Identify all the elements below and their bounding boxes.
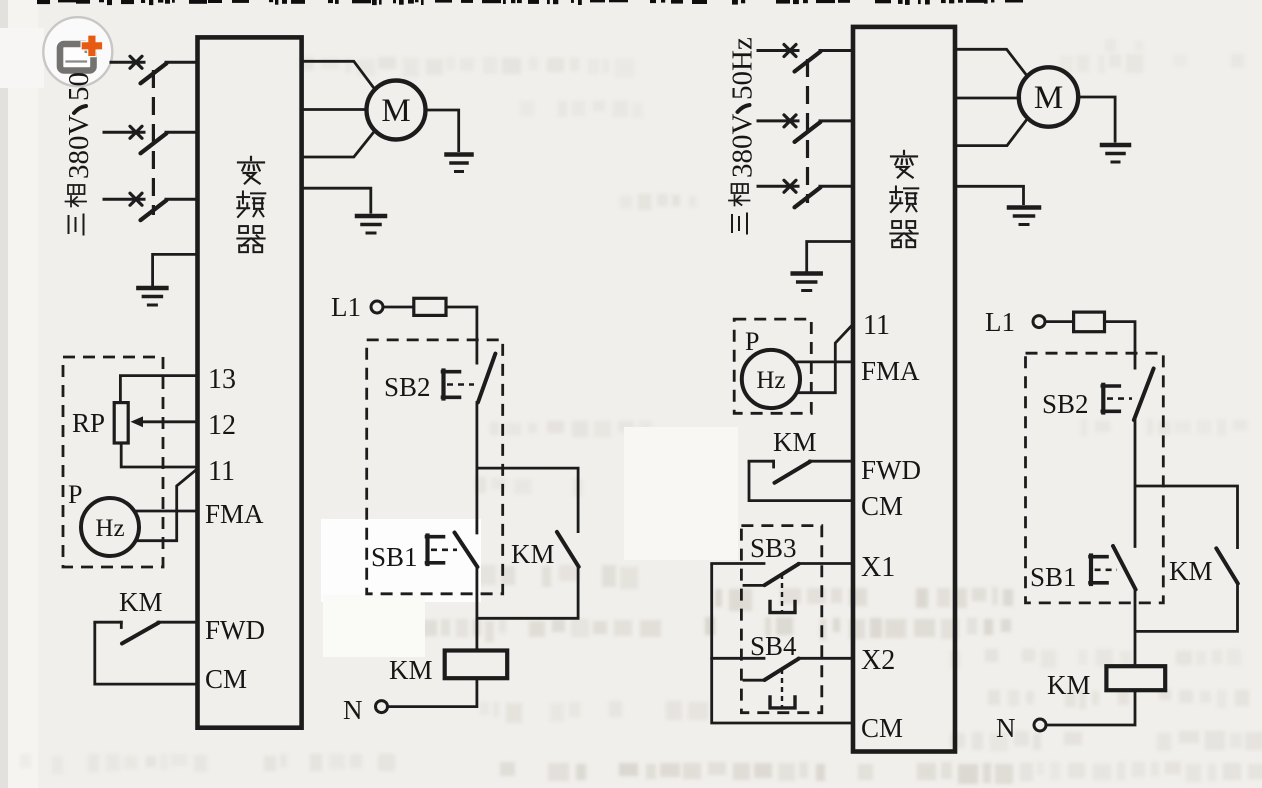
- svg-text:CM: CM: [205, 664, 247, 694]
- wire KM aux bottom (right control): [1135, 583, 1238, 631]
- wire KM aux bottom: [477, 567, 578, 619]
- terminal L1 circle: [371, 301, 383, 313]
- motor M (right): [1019, 67, 1078, 126]
- wire SB1 to coil: [475, 567, 478, 651]
- svg-text:380V: 380V: [63, 115, 95, 180]
- button SB2 actuator (right control): [1101, 385, 1105, 413]
- contact KM aux blade: [557, 532, 579, 567]
- wire fuse to SB2 (right control): [1105, 322, 1136, 370]
- contact KM to FWD (right): [749, 460, 774, 463]
- meter wire to FMA: [134, 510, 197, 513]
- three-phase supply label 三相380V、50Hz (right): [727, 37, 759, 233]
- switch QS phase 2 (left): [104, 131, 144, 134]
- svg-text:M: M: [1034, 80, 1063, 116]
- ground G4 below motor (right): [1102, 143, 1129, 148]
- button SB4 wire and blade (X2): [712, 657, 764, 660]
- svg-text:RP: RP: [72, 408, 105, 438]
- svg-text:SB2: SB2: [384, 372, 431, 402]
- ground G2 (left): [357, 214, 385, 219]
- button SB2 NC blade: [478, 354, 496, 403]
- svg-text:Hz: Hz: [95, 515, 124, 542]
- terminal L1 circle (right control): [1033, 316, 1045, 328]
- wire to motor bottom (right): [955, 118, 1028, 145]
- svg-text:KM: KM: [773, 427, 817, 457]
- inverter U2 label 变频器: [891, 151, 917, 178]
- svg-text:50Hz: 50Hz: [727, 37, 759, 100]
- ground G5 (right): [1009, 205, 1039, 210]
- frequency meter P/Hz (right): [742, 350, 800, 408]
- svg-text:11: 11: [208, 456, 235, 487]
- button SB1 NO blade: [455, 533, 478, 568]
- branch wire to KM contact (left control): [477, 468, 578, 533]
- wire SB2 to junction: [475, 403, 478, 534]
- svg-text:Hz: Hz: [756, 367, 785, 394]
- switch QS phase 1 (right): [758, 49, 798, 52]
- svg-text:CM: CM: [861, 713, 903, 743]
- button SB3 wire and blade (X1): [712, 562, 764, 565]
- svg-text:380V: 380V: [727, 114, 759, 179]
- svg-text:12: 12: [208, 410, 236, 441]
- svg-text:N: N: [996, 713, 1016, 743]
- terminal N circle (right control): [1034, 719, 1046, 731]
- wire L1 to fuse: [383, 306, 414, 309]
- inverter U2 (right 变频器): [853, 27, 955, 752]
- potentiometer RP body: [114, 403, 128, 443]
- wire KM-CM (left): [95, 622, 198, 684]
- button SB1 actuator: [425, 536, 429, 565]
- svg-text:L1: L1: [985, 307, 1015, 337]
- svg-text:X2: X2: [861, 645, 895, 676]
- watermark logo document icon: [60, 44, 94, 71]
- ground G1 below motor (left): [447, 152, 472, 157]
- dashed enclosure buttons (right control): [1026, 353, 1164, 603]
- svg-text:X1: X1: [861, 552, 895, 583]
- terminal 13 wire: [120, 376, 197, 403]
- terminal 12 wire with wiper arrow: [140, 420, 198, 423]
- wire to motor mid (left): [302, 108, 367, 111]
- svg-text:FMA: FMA: [205, 499, 264, 529]
- dashed enclosure SB3/SB4: [741, 526, 821, 713]
- wire to ground from inverter left (right): [807, 242, 853, 272]
- button SB2 actuator: [441, 371, 445, 399]
- button SB1 NO blade (right control): [1113, 546, 1136, 590]
- switch linkage dashed (right): [806, 59, 809, 203]
- button SB1 actuator (right control): [1089, 556, 1093, 585]
- svg-text:11: 11: [863, 310, 890, 341]
- fuse FU (left control): [414, 298, 446, 315]
- terminal N circle (left control): [376, 701, 388, 713]
- ground G6 (right): [793, 271, 821, 276]
- motor ground wire (right): [1078, 97, 1115, 143]
- svg-text:KM: KM: [1047, 670, 1091, 700]
- top cropped text row: [37, 0, 50, 4]
- fuse FU (right control): [1074, 312, 1105, 332]
- inverter U1 (left 变频器): [198, 37, 302, 727]
- watermark logo circle: [43, 17, 112, 86]
- coil KM (right control): [1106, 666, 1165, 690]
- svg-text:FMA: FMA: [861, 356, 920, 386]
- inverter U1 label 变频器: [238, 157, 264, 184]
- RP bottom wire to terminal 11: [121, 443, 197, 467]
- svg-text:KM: KM: [1169, 556, 1213, 586]
- contact KM aux blade (right control): [1216, 548, 1238, 583]
- switch QS phase 3 (right): [758, 185, 798, 188]
- svg-text:L1: L1: [331, 292, 361, 322]
- inverter PE wire (right): [955, 186, 1024, 205]
- meter wire to terminal 11: [136, 469, 198, 541]
- inverter PE wire (left): [302, 188, 371, 213]
- contact KM to FWD (left): [95, 621, 122, 624]
- wire to motor bottom (left): [302, 130, 376, 157]
- svg-text:13: 13: [208, 364, 236, 395]
- wire to ground from inverter left (left): [153, 254, 198, 286]
- wire to motor mid (right): [955, 97, 1019, 100]
- wire to motor top (right): [955, 49, 1028, 77]
- svg-text:SB1: SB1: [1030, 562, 1077, 592]
- svg-text:FWD: FWD: [205, 615, 265, 645]
- svg-text:FWD: FWD: [861, 455, 921, 485]
- common rail SB3/SB4 to CM: [712, 564, 853, 724]
- wire coil to N (right control): [1047, 690, 1136, 725]
- svg-text:SB4: SB4: [750, 631, 797, 661]
- meter wire to FMA (right): [796, 360, 854, 363]
- wire SB1 to coil (right control): [1134, 589, 1137, 666]
- branch wire to KM aux (right control): [1135, 486, 1238, 549]
- wire SB2 to junction (right control): [1134, 420, 1137, 547]
- svg-text:KM: KM: [511, 539, 555, 569]
- svg-text:SB1: SB1: [371, 542, 418, 572]
- switch QS phase 1 (left): [111, 61, 144, 64]
- svg-text:SB3: SB3: [750, 533, 797, 563]
- svg-text:M: M: [381, 93, 410, 129]
- coil KM (left control): [445, 651, 508, 679]
- watermark logo plus: [82, 36, 102, 56]
- meter wire to terminal 11 (right): [797, 324, 854, 393]
- dashed enclosure meter (right): [734, 319, 811, 413]
- dashed enclosure buttons (left control): [367, 340, 503, 594]
- switch QS phase 3 (left): [104, 198, 144, 201]
- wire L1 to fuse (right control): [1045, 320, 1073, 323]
- frequency meter P/Hz (left): [81, 498, 139, 556]
- svg-text:KM: KM: [119, 587, 163, 617]
- ground G3 (left): [138, 286, 166, 291]
- motor M (left): [367, 81, 426, 140]
- wire KM-CM (right): [749, 461, 853, 500]
- wire fuse to SB2: [446, 307, 477, 365]
- dashed enclosure RP/meter (left): [63, 357, 163, 567]
- wire U-V-W to motor (left top): [302, 61, 376, 90]
- switch QS phase 2 (right): [758, 119, 798, 122]
- white patches: [321, 519, 481, 602]
- svg-text:SB2: SB2: [1042, 389, 1089, 419]
- svg-text:CM: CM: [861, 491, 903, 521]
- svg-text:N: N: [343, 695, 363, 725]
- button SB2 NC blade (right control): [1134, 369, 1154, 421]
- wire coil to N: [388, 678, 477, 706]
- svg-text:KM: KM: [389, 655, 433, 685]
- switch linkage dashed (left): [152, 70, 155, 215]
- svg-text:P: P: [68, 480, 82, 509]
- motor ground wire (left): [426, 110, 459, 152]
